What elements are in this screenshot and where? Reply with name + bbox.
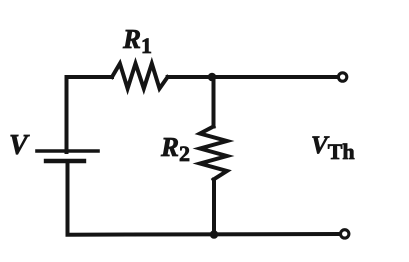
battery V short plate xyxy=(46,159,84,163)
label VTh xyxy=(311,132,355,165)
resistor R1 xyxy=(112,64,168,89)
label V (source) xyxy=(9,130,28,162)
node B (bottom junction) xyxy=(210,230,219,239)
label R2 xyxy=(161,132,190,167)
resistor R2 xyxy=(200,127,227,180)
wire: left vertical + top wire left of R1 xyxy=(67,77,113,152)
battery V long plate xyxy=(37,149,98,153)
label R1 xyxy=(123,24,152,59)
terminal top xyxy=(338,73,346,81)
wire: R2 down to bottom junction xyxy=(212,180,216,235)
wire: lower-left vertical + bottom wire xyxy=(68,161,340,235)
wire: top junction down to R2 xyxy=(212,77,216,127)
terminal bottom xyxy=(341,230,349,238)
wire: top wire right of R1 to terminal xyxy=(168,75,337,79)
node A (top junction) xyxy=(208,73,217,82)
